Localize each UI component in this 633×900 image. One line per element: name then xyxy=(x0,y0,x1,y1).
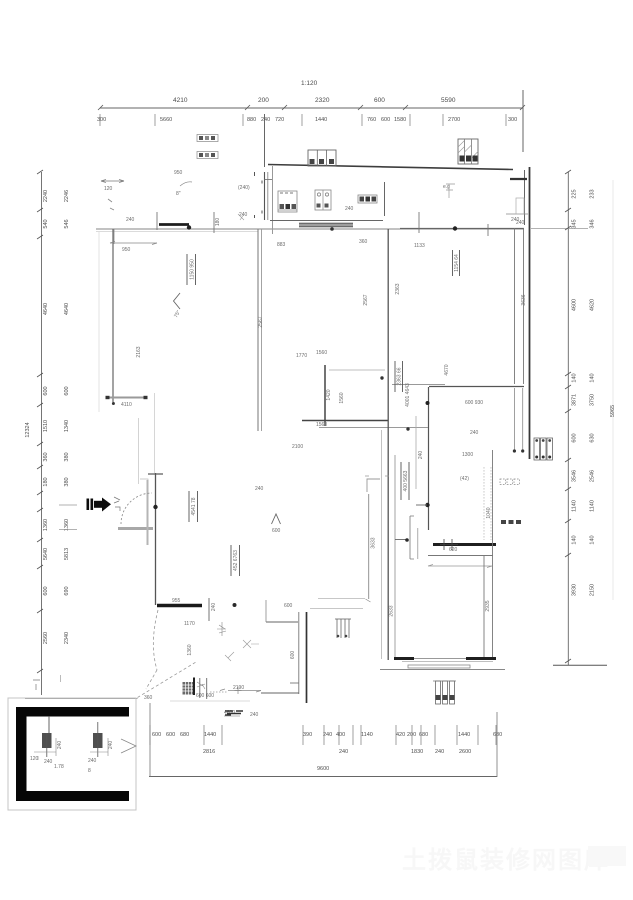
svg-text:240: 240 xyxy=(108,741,114,750)
bath interior marks xyxy=(238,214,244,220)
bedroom1 wall double x512.5/x523.5 xyxy=(514,228,516,384)
closet hatch small right xyxy=(516,198,524,214)
svg-text:3930: 3930 xyxy=(572,584,578,596)
svg-text:600 600: 600 600 xyxy=(196,693,214,699)
dining nook wall horizontal y420.5 xyxy=(302,420,388,422)
svg-text:240: 240 xyxy=(88,758,97,764)
svg-text:1340: 1340 xyxy=(64,420,70,432)
svg-text:3871: 3871 xyxy=(572,394,578,406)
svg-text:1440: 1440 xyxy=(204,732,216,738)
svg-text:880: 880 xyxy=(247,117,256,123)
tick x209 xyxy=(208,598,210,621)
dining dot xyxy=(380,376,383,379)
entry dim with arrows xyxy=(210,691,228,693)
svg-text:140: 140 xyxy=(572,535,578,544)
svg-text:240: 240 xyxy=(470,430,479,436)
svg-text:1040: 1040 xyxy=(486,507,492,518)
top-left dim line y243 xyxy=(110,242,157,244)
svg-text:4620: 4620 xyxy=(590,299,596,311)
svg-text:360: 360 xyxy=(359,239,368,245)
svg-text:75": 75" xyxy=(173,309,182,319)
wc small wall y683 xyxy=(290,682,299,684)
svg-text:1140: 1140 xyxy=(590,500,596,512)
svg-text:8: 8 xyxy=(88,768,91,774)
detail column rect 1 xyxy=(42,733,52,748)
bottom wall dark seg2 xyxy=(466,657,496,660)
svg-text:2150: 2150 xyxy=(590,584,596,596)
svg-text:600: 600 xyxy=(43,586,49,595)
svg-text:2935: 2935 xyxy=(485,600,491,611)
svg-text:240: 240 xyxy=(57,741,63,750)
kitchen corner ticks xyxy=(365,475,389,477)
svg-text:1580: 1580 xyxy=(394,117,406,123)
bath right wall x493 xyxy=(492,450,494,658)
svg-text:1440: 1440 xyxy=(315,117,327,123)
top outer wall xyxy=(268,165,513,170)
top right corner lintel y184 xyxy=(510,178,527,180)
svg-text:680: 680 xyxy=(419,732,428,738)
top-left dim with arrows xyxy=(101,180,124,182)
rotated room label closet xyxy=(401,462,409,500)
top right corner wall vertical x525 xyxy=(524,170,526,225)
svg-text:950: 950 xyxy=(122,247,131,253)
detail leader line xyxy=(25,698,138,700)
bottom dimension baseline xyxy=(149,776,497,778)
svg-text:2546: 2546 xyxy=(590,470,596,482)
svg-text:1:120: 1:120 xyxy=(301,80,318,87)
detail column rect 2 xyxy=(93,733,103,748)
right dim bottom cross line xyxy=(553,664,607,666)
svg-text:600 930: 600 930 xyxy=(465,400,483,406)
svg-text:3546: 3546 xyxy=(572,470,578,482)
rotated room label dining xyxy=(395,361,403,392)
svg-text:233: 233 xyxy=(590,189,596,198)
svg-text:600: 600 xyxy=(64,386,70,395)
tick at x419 xyxy=(418,212,420,233)
svg-text:1360: 1360 xyxy=(187,644,193,655)
svg-text:2363: 2363 xyxy=(395,283,401,294)
dim bar end caps xyxy=(106,396,110,399)
svg-text:680: 680 xyxy=(493,732,502,738)
svg-text:200: 200 xyxy=(258,97,269,104)
entry arrow body xyxy=(94,501,103,508)
entry wall top tick xyxy=(148,473,163,475)
wc bottom wall y693 xyxy=(261,692,299,694)
right dimension line xyxy=(567,172,569,665)
svg-text:4110: 4110 xyxy=(121,402,132,408)
sliding door symbol xyxy=(335,619,351,638)
wc right wall x306.5 dark xyxy=(306,612,308,703)
svg-text:240: 240 xyxy=(255,486,264,492)
faint vertical x154.5 xyxy=(154,393,156,473)
tick and dot at y539.5 xyxy=(395,539,407,541)
left aux vertical xyxy=(60,675,62,682)
kitchen window band triple lines xyxy=(299,223,353,226)
entry gray door sill xyxy=(118,527,153,530)
kitchen end tick xyxy=(366,599,371,602)
closet scribble marks xyxy=(197,682,205,689)
kitchen furniture box2 xyxy=(315,190,331,210)
svg-text:1.78: 1.78 xyxy=(54,764,64,770)
svg-text:180: 180 xyxy=(43,477,49,486)
inner bottom line xyxy=(402,661,493,663)
svg-text:225: 225 xyxy=(572,189,578,198)
svg-text:1560: 1560 xyxy=(316,422,327,428)
svg-text:4600: 4600 xyxy=(572,299,578,311)
svg-text:400: 400 xyxy=(336,732,345,738)
bottom dimension ticks xyxy=(150,725,496,745)
svg-text:300: 300 xyxy=(97,117,106,123)
detail column line through 2 xyxy=(97,722,99,757)
svg-text:4210: 4210 xyxy=(173,97,188,104)
svg-text:120: 120 xyxy=(104,186,113,192)
svg-text:600: 600 xyxy=(166,732,175,738)
svg-text:360: 360 xyxy=(144,695,153,701)
entry arrow bars xyxy=(87,499,90,511)
svg-text:345: 345 xyxy=(572,219,578,228)
svg-text:1154 64: 1154 64 xyxy=(454,254,460,272)
svg-text:1133: 1133 xyxy=(414,243,425,249)
dot on y427 line xyxy=(406,427,409,430)
plus mark xyxy=(235,687,242,694)
junction dot at 191,228 xyxy=(187,225,191,229)
bedroom1 bottom wall y387 xyxy=(429,386,524,388)
svg-text:955: 955 xyxy=(172,598,181,604)
dashed leader diagonal xyxy=(138,662,197,698)
svg-text:1560: 1560 xyxy=(316,350,327,356)
svg-text:140: 140 xyxy=(590,373,596,382)
right dimension labels column1 xyxy=(572,189,578,596)
central wall light left line xyxy=(381,430,383,659)
svg-text:3636: 3636 xyxy=(521,294,527,305)
closet wall dots xyxy=(426,401,430,405)
dining dim line xyxy=(329,369,385,371)
svg-text:390: 390 xyxy=(303,732,312,738)
kitchen bottom wall y220.5 xyxy=(270,220,383,222)
bath top wall y555.5 xyxy=(428,555,493,557)
detail tiny dims col2 xyxy=(90,738,108,756)
light floor line y701 xyxy=(170,700,250,702)
kitchen2 wall x370 xyxy=(368,494,370,599)
svg-text:140: 140 xyxy=(572,373,578,382)
svg-text:540: 540 xyxy=(43,219,49,228)
bottom wall dark seg1 xyxy=(394,657,414,660)
svg-text:360: 360 xyxy=(43,452,49,461)
inner vertical end dots xyxy=(513,449,516,452)
svg-text:240: 240 xyxy=(250,712,259,718)
kitchen corner bracket xyxy=(367,479,380,492)
svg-text:140: 140 xyxy=(590,535,596,544)
top-left small marks xyxy=(108,199,114,210)
bottom dimension labels row2 xyxy=(203,749,471,755)
svg-text:2700: 2700 xyxy=(448,117,460,123)
living wall double x258/x261.5 xyxy=(257,229,259,431)
left dimension ticks xyxy=(37,170,43,673)
svg-text:950: 950 xyxy=(174,170,183,176)
svg-text:3633: 3633 xyxy=(371,537,377,548)
small double symbol rows upper left xyxy=(197,135,218,159)
left outer wall x112 xyxy=(112,229,114,402)
wc fan symbol xyxy=(217,622,226,636)
svg-text:2633: 2633 xyxy=(389,605,395,616)
closet dark dashes xyxy=(501,520,506,524)
central wall x389.5 xyxy=(387,229,389,660)
left dimension labels column1 xyxy=(43,190,49,644)
svg-text:4640: 4640 xyxy=(64,303,70,315)
bath dim line y566 xyxy=(428,565,492,568)
svg-text:3750: 3750 xyxy=(590,394,596,406)
rotated room label entry garden xyxy=(189,491,198,522)
junction dot mid bottom xyxy=(233,603,237,607)
svg-text:346: 346 xyxy=(590,219,596,228)
bedroom small furniture marks xyxy=(446,184,455,198)
svg-text:9600: 9600 xyxy=(317,766,329,772)
svg-text:4670: 4670 xyxy=(444,364,450,375)
thick entry partition wall xyxy=(157,604,202,607)
svg-text:690: 690 xyxy=(64,586,70,595)
rotated room label hall xyxy=(231,545,240,576)
kitchen jamb y179.5 xyxy=(265,179,273,181)
top dimension ticks xyxy=(98,105,525,110)
dining nook wall vertical x325 xyxy=(324,365,326,426)
terrace half wall thick xyxy=(159,223,189,226)
kitchen furniture box1 xyxy=(278,191,297,212)
svg-text:600: 600 xyxy=(284,603,293,609)
svg-text:2363 66: 2363 66 xyxy=(397,367,403,385)
svg-text:400 5663: 400 5663 xyxy=(403,470,409,491)
svg-text:5660: 5660 xyxy=(160,117,172,123)
svg-text:300: 300 xyxy=(508,117,517,123)
svg-text:546: 546 xyxy=(64,219,70,228)
left dimension line xyxy=(41,172,43,695)
wc top wall y622 xyxy=(266,621,298,623)
svg-text:452 6763: 452 6763 xyxy=(233,550,239,571)
svg-text:240: 240 xyxy=(126,217,135,223)
svg-text:1150 950: 1150 950 xyxy=(190,259,196,280)
rotated room label terrace xyxy=(187,254,196,285)
svg-text:2246: 2246 xyxy=(64,190,70,202)
svg-text:(240): (240) xyxy=(238,185,250,191)
svg-text:4541 78: 4541 78 xyxy=(191,497,197,515)
top dimension line xyxy=(100,107,523,109)
svg-text:240: 240 xyxy=(211,603,217,612)
top dim extension vertical at x523 xyxy=(522,90,524,152)
wall stub bottom of left wall xyxy=(107,397,146,399)
svg-text:1420: 1420 xyxy=(326,389,332,400)
chevron mark living xyxy=(272,514,281,524)
detail box outer frame xyxy=(8,698,136,810)
right dimension labels column2 xyxy=(590,189,596,596)
entry small marks xyxy=(114,497,120,503)
svg-text:2163: 2163 xyxy=(136,346,142,357)
closet wall x428.5 xyxy=(428,387,430,530)
wc inner wall x298.8 xyxy=(298,612,300,694)
entry door swing arc dashed xyxy=(121,493,152,524)
svg-text:5965: 5965 xyxy=(610,405,616,417)
detail chevron pointer xyxy=(121,739,136,753)
svg-text:620: 620 xyxy=(449,547,458,553)
bottom wall window thin xyxy=(414,658,466,660)
left strip bottom small marks xyxy=(33,680,40,690)
dim bracket bottom right interior xyxy=(410,516,414,559)
svg-text:5813: 5813 xyxy=(64,548,70,560)
svg-text:1360: 1360 xyxy=(43,519,49,531)
entry door junction dot xyxy=(153,505,157,509)
svg-text:2240: 2240 xyxy=(43,190,49,202)
top dim extension vertical at x264 xyxy=(264,114,266,167)
svg-text:240: 240 xyxy=(44,759,53,765)
svg-text:240: 240 xyxy=(339,749,348,755)
kitchen interior vertical x272.5 xyxy=(272,166,274,234)
svg-text:120: 120 xyxy=(30,756,39,762)
entry closet hatch block xyxy=(183,682,194,695)
svg-text:2340: 2340 xyxy=(64,632,70,644)
kitchen furniture box3 xyxy=(358,195,377,203)
svg-text:630: 630 xyxy=(590,433,596,442)
detail column line through 1 xyxy=(46,733,48,757)
entry closet dark jamb xyxy=(193,678,195,696)
svg-text:380: 380 xyxy=(64,477,70,486)
right dimension ticks xyxy=(565,170,571,663)
corridor light wall x138.5 xyxy=(138,418,140,484)
svg-text:380: 380 xyxy=(64,452,70,461)
svg-text:1440: 1440 xyxy=(458,732,470,738)
svg-text:(42): (42) xyxy=(460,476,469,482)
bath top headboard thick xyxy=(433,543,496,546)
bottom dimension labels row1 xyxy=(152,732,502,738)
main wall darker overlay right xyxy=(400,227,524,229)
bottom outer line y665.5 xyxy=(380,669,505,671)
bedroom bottom wall light left part xyxy=(392,384,445,386)
balcony rail rect xyxy=(408,665,470,668)
svg-text:2190: 2190 xyxy=(233,685,244,691)
right dim small 240 at y214 xyxy=(506,213,528,215)
window symbol above top wall xyxy=(308,150,336,166)
detail box black bracket top xyxy=(16,707,129,717)
svg-text:240: 240 xyxy=(261,117,270,123)
light vertical x416 xyxy=(415,416,417,489)
kitchen2 counter lines xyxy=(310,599,365,609)
detail box black bracket left xyxy=(16,707,27,801)
tick left of dot xyxy=(416,504,427,506)
svg-text:2567: 2567 xyxy=(258,316,264,327)
svg-text:1300: 1300 xyxy=(462,452,473,458)
entry wall x155.5 xyxy=(155,473,157,605)
junction dot at 332,229 xyxy=(330,227,334,231)
svg-text:2560: 2560 xyxy=(43,632,49,644)
svg-text:土拨鼠装修网图库: 土拨鼠装修网图库 xyxy=(402,847,610,874)
svg-text:2600: 2600 xyxy=(459,749,471,755)
dashed guide curve xyxy=(146,610,158,689)
svg-text:420: 420 xyxy=(396,732,405,738)
svg-text:1770: 1770 xyxy=(296,353,307,359)
kitchen right wall x384.5 xyxy=(384,182,386,216)
detail box black bracket bottom xyxy=(16,791,129,801)
svg-text:200: 200 xyxy=(407,732,416,738)
dining nook light line y427.5 xyxy=(319,427,428,429)
svg-text:2816: 2816 xyxy=(203,749,215,755)
top dim row2 ticks xyxy=(100,114,506,126)
dark glyph marks under entry xyxy=(225,711,243,715)
detail column line 1 xyxy=(48,716,50,733)
wall extension to right dim xyxy=(531,228,588,230)
svg-text:8": 8" xyxy=(176,191,181,197)
svg-text:2100: 2100 xyxy=(292,444,303,450)
svg-text:1140: 1140 xyxy=(361,732,373,738)
main horizontal wall line y229 xyxy=(96,228,524,230)
tick at x214 xyxy=(213,212,215,233)
svg-text:180: 180 xyxy=(215,218,221,227)
left small separators xyxy=(59,505,77,530)
svg-text:240: 240 xyxy=(323,732,332,738)
faint extension line x99 xyxy=(98,231,100,412)
bottom 3-bar window symbol xyxy=(433,681,456,704)
dotted closet boxes xyxy=(484,467,520,540)
svg-text:1560: 1560 xyxy=(339,392,345,403)
detail tiny dims col1 xyxy=(34,738,56,760)
entry arrow head xyxy=(102,498,111,512)
svg-text:600: 600 xyxy=(381,117,390,123)
svg-text:4001 4643: 4001 4643 xyxy=(405,383,411,407)
bottom dimension end verticals xyxy=(149,703,151,777)
tick at x157 wall end xyxy=(156,212,158,230)
svg-text:600: 600 xyxy=(374,97,385,104)
right faint second line xyxy=(612,180,614,600)
svg-text:600: 600 xyxy=(272,528,281,534)
svg-text:760: 760 xyxy=(367,117,376,123)
left dimension labels column2 xyxy=(64,190,70,644)
kitchen wall ticks xyxy=(255,172,263,218)
svg-text:5590: 5590 xyxy=(441,97,456,104)
central wall parallel light xyxy=(394,455,396,660)
svg-text:240: 240 xyxy=(516,220,525,226)
chevron mark terrace xyxy=(174,293,181,309)
inner verticals x514/x523 xyxy=(513,388,515,451)
svg-text:600: 600 xyxy=(572,433,578,442)
svg-text:600: 600 xyxy=(152,732,161,738)
svg-text:600: 600 xyxy=(290,651,296,660)
svg-text:1140: 1140 xyxy=(572,500,578,512)
rotated room label bed1 xyxy=(453,250,461,276)
entry door frame gray vertical xyxy=(147,480,149,545)
svg-text:600: 600 xyxy=(43,386,49,395)
svg-text:240: 240 xyxy=(345,206,354,212)
svg-text:1170: 1170 xyxy=(184,621,195,627)
svg-text:720: 720 xyxy=(275,117,284,123)
bath inner vertical x484 xyxy=(483,555,485,659)
right outer wall x530.5 xyxy=(529,167,531,459)
flue shaft symbol xyxy=(458,139,478,164)
svg-text:883: 883 xyxy=(277,242,286,248)
wc tick x266 xyxy=(265,600,267,622)
svg-text:12324: 12324 xyxy=(25,422,31,437)
svg-text:1510: 1510 xyxy=(43,420,49,432)
svg-text:680: 680 xyxy=(180,732,189,738)
svg-text:1830: 1830 xyxy=(411,749,423,755)
right window symbol 3 bars xyxy=(534,438,553,460)
small step outline bottom xyxy=(140,479,148,484)
svg-text:2567: 2567 xyxy=(363,294,369,305)
svg-text:5640: 5640 xyxy=(43,548,49,560)
dot below dim bar xyxy=(112,402,115,405)
main wall second light line xyxy=(96,231,258,233)
svg-text:2320: 2320 xyxy=(315,97,330,104)
svg-text:240: 240 xyxy=(435,749,444,755)
tick x114 below main wall xyxy=(113,229,115,244)
kitchen left wall double x264.5 xyxy=(264,172,266,220)
headboard cross ticks xyxy=(440,539,458,550)
svg-text:240: 240 xyxy=(418,451,424,460)
